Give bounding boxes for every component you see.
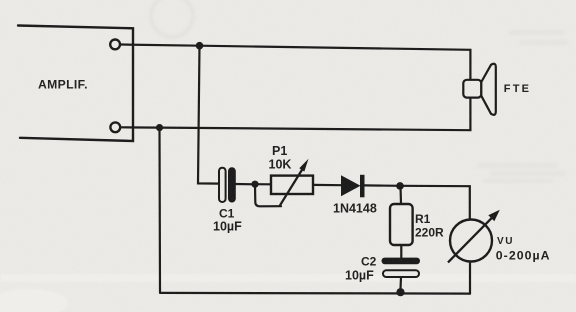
node B junction dot [396,182,404,190]
wire R1 top [399,186,402,204]
wire bottom output [120,126,159,128]
scan noise overlay [0,0,1,1]
wire tap down to C1 [198,46,219,184]
amplifier box [18,26,133,142]
node bottom-left junction dot [156,124,163,131]
wire top output [120,45,199,46]
wire node A to P1 [255,183,271,185]
meter VU M1 [448,210,500,263]
wire ground vertical [158,128,161,292]
wire P1 to diode [313,184,341,187]
terminal bottom [110,122,120,132]
wire bottom to speaker [160,98,471,131]
speaker FTE [463,64,496,115]
node top junction dot [196,42,204,50]
potentiometer P1 [271,159,313,206]
wire R1 to C2 [400,245,402,258]
scan light band [0,274,576,282]
scan light blob bottom-left [0,289,68,312]
wire node B to meter [400,186,470,220]
wire top to speaker [200,46,471,80]
capacitor C2 [382,258,421,277]
ghost circle artifact [151,0,193,37]
wire ground bottom [160,292,470,295]
capacitor C1 [219,168,235,202]
diode D1 1N4148 [341,175,365,198]
ghost smudge right [478,30,568,183]
node ground junction dot [396,288,404,296]
wire P1 wiper bypass [255,184,281,206]
wire C1 to node A [235,183,255,186]
wire diode to node B [365,184,401,187]
wire C2 to bottom [399,277,402,289]
terminal top [110,40,120,50]
wire meter bottom [469,262,471,294]
node A junction dot [251,181,258,188]
resistor R1 [390,204,413,245]
